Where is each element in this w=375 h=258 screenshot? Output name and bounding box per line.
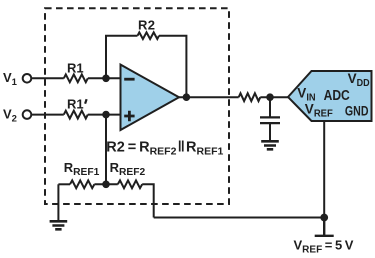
- wire RREF rail left end: [58, 183, 70, 185]
- resistor RREF1: [70, 180, 94, 188]
- resistor R2: [138, 32, 160, 39]
- svg-text:ADC: ADC: [324, 88, 351, 104]
- resistor R1: [64, 74, 88, 82]
- wire between RREF1 and RREF2: [94, 183, 117, 185]
- op-amp U1: [121, 65, 180, 130]
- wire op-amp output to filter resistor: [179, 96, 239, 98]
- svg-text:R1: R1: [67, 60, 84, 75]
- wire cap node down to capacitor: [269, 97, 271, 117]
- node E (RREF divider junction): [102, 181, 110, 189]
- input terminal V1: [23, 74, 32, 83]
- input terminal V2: [23, 110, 32, 119]
- wire V2 to R1': [32, 114, 64, 116]
- svg-text:R1: R1: [67, 97, 84, 112]
- ground (below RREF1): [50, 221, 68, 229]
- wire reference rail horizontal: [154, 217, 325, 219]
- ADC U2: [288, 71, 372, 121]
- wire feedback right vertical (R2 down to output node): [159, 36, 186, 97]
- wire R1 to op-amp inverting input: [88, 77, 121, 79]
- wire RREF2 to right drop: [142, 184, 154, 217]
- wire capacitor to ground: [269, 123, 271, 141]
- dashed box (difference amplifier block boundary): [45, 8, 229, 204]
- 5V reference source terminal bar: [315, 218, 334, 236]
- node A (inverting input junction): [102, 75, 110, 83]
- wire RREF1 left end down to ground: [57, 184, 59, 221]
- wire ADC VREF pin down to 5V reference: [323, 121, 325, 218]
- ground (below filter capacitor): [261, 141, 279, 149]
- wire non-inverting node down to RREF junction: [105, 115, 107, 185]
- label R1' prime mark: [85, 99, 87, 104]
- wire V1 to R1: [32, 77, 64, 79]
- node B (non-inverting input junction): [102, 111, 110, 119]
- wire filter resistor to ADC VIN: [260, 96, 288, 98]
- capacitor C1 (filter cap): [260, 117, 280, 123]
- resistor R1': [64, 111, 88, 119]
- op-amp inverting pin minus sign: [124, 78, 134, 81]
- op-amp non-inverting pin plus sign: [124, 111, 134, 121]
- resistor RREF2: [118, 180, 142, 188]
- node VREF junction: [320, 214, 328, 222]
- wire feedback left vertical (inverting node up to R2): [106, 36, 138, 79]
- node C (op-amp output junction): [183, 93, 191, 101]
- svg-text:GND: GND: [345, 104, 369, 119]
- wire R1' to op-amp non-inverting input: [88, 114, 121, 116]
- resistor (output RC filter): [239, 93, 261, 101]
- svg-text:R2: R2: [138, 18, 155, 33]
- node D (filter cap junction): [266, 93, 274, 101]
